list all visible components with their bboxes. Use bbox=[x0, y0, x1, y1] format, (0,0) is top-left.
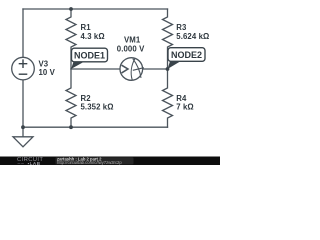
svg-text:5.624 kΩ: 5.624 kΩ bbox=[176, 32, 209, 41]
svg-text:4.3 kΩ: 4.3 kΩ bbox=[81, 32, 105, 41]
svg-text:NODE1: NODE1 bbox=[74, 51, 105, 61]
svg-text:7 kΩ: 7 kΩ bbox=[176, 103, 194, 112]
svg-text:▪LAB: ▪LAB bbox=[28, 161, 41, 165]
svg-text:10 V: 10 V bbox=[39, 68, 56, 77]
svg-text:∼∼: ∼∼ bbox=[17, 161, 24, 165]
svg-text:http://circuitlab.com/c/fwy7zw: http://circuitlab.com/c/fwy7zw3rc2p bbox=[57, 160, 122, 165]
svg-text:5.352 kΩ: 5.352 kΩ bbox=[81, 103, 114, 112]
svg-text:0.000 V: 0.000 V bbox=[117, 44, 145, 53]
svg-text:NODE2: NODE2 bbox=[171, 50, 202, 60]
